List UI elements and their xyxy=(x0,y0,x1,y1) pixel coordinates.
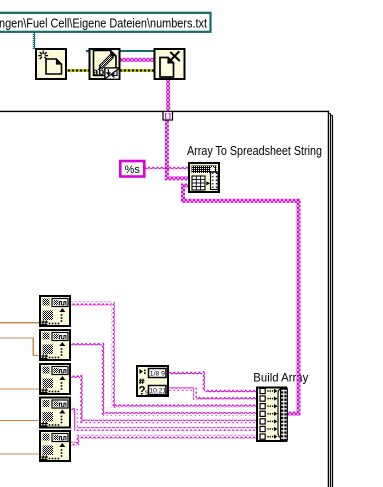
wire: number string A to Build Array xyxy=(69,302,257,408)
wire: refnum teal Write->Close xyxy=(121,50,154,52)
wire: error cluster Write->Close xyxy=(121,69,154,72)
wire: date string to Build Array row1 xyxy=(169,371,257,393)
wire: error cluster Open->Write xyxy=(66,69,89,72)
svg-text:%s: %s xyxy=(125,164,141,176)
sequence structure top edge xyxy=(0,111,329,487)
function icon: Number To Fractional String E xyxy=(40,431,70,461)
wire: beads tunnel down to Array To Spreadsheet String xyxy=(165,120,169,179)
function icon: Number To Fractional String A xyxy=(40,296,70,326)
sequence structure frame echo lines xyxy=(328,114,332,487)
tunnel [] on structure edge xyxy=(163,112,173,121)
wire: numeric orange input B xyxy=(0,338,40,356)
wire: time string to Build Array row2 xyxy=(169,387,257,400)
wire: string array Write->Close (beads) xyxy=(121,58,154,62)
function icon: Close File (file with X) xyxy=(155,49,185,79)
function icon: Open File (file with sparkle) xyxy=(36,49,66,79)
wire: number string B to Build Array xyxy=(69,343,257,416)
svg-text:ngen\Fuel Cell\Eigene Dateien\: ngen\Fuel Cell\Eigene Dateien\numbers.tx… xyxy=(0,15,207,30)
function icon: Number To Fractional String B xyxy=(40,330,70,360)
function icon: Write Characters To File (ab pencil) xyxy=(90,49,120,79)
wire: numeric orange input A xyxy=(0,322,40,324)
function icon: Array To Spreadsheet String xyxy=(189,163,219,192)
wire: numeric orange input E xyxy=(0,453,40,455)
function icon: Get Date/Time String xyxy=(137,366,168,398)
refnum stub at Write icon left xyxy=(86,50,89,52)
function icon: Number To Fractional String C xyxy=(40,364,70,394)
svg-text:1/8 9: 1/8 9 xyxy=(150,371,165,378)
wire: %s format string to ATSS xyxy=(144,167,189,171)
wire: path constant to Open File (teal path wire) xyxy=(33,32,36,50)
wire: number string C to Build Array xyxy=(69,375,257,424)
function: Build Array node xyxy=(257,388,287,442)
wire: number string D to Build Array xyxy=(69,408,257,431)
wire: number string E to Build Array xyxy=(69,435,257,446)
wire: numeric orange input C xyxy=(0,388,40,390)
svg-text:ab: ab xyxy=(93,67,105,78)
wire: beads from Close File down to tunnel xyxy=(166,79,170,112)
function icon: Number To Fractional String D xyxy=(40,398,70,428)
svg-text:Array To Spreadsheet String: Array To Spreadsheet String xyxy=(187,143,322,158)
wire: numeric orange input D xyxy=(0,420,40,422)
wire: 1D array Build Array -> ATSS (beads) xyxy=(181,184,301,416)
string constant %s xyxy=(120,161,144,177)
path constant numbers.txt xyxy=(0,13,211,32)
svg-text:10:21: 10:21 xyxy=(149,388,166,395)
